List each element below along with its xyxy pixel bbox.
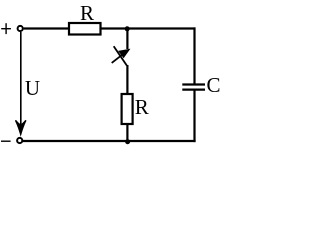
voltage arrow U (shaft) bbox=[20, 32, 22, 127]
resistor R2 (middle, vertical) bbox=[122, 94, 133, 124]
wire from junction down to switch bbox=[126, 29, 128, 50]
wire from resistor R2 down to bottom rail bbox=[126, 124, 128, 142]
capacitor C1 plates bbox=[182, 85, 205, 90]
svg-text:R: R bbox=[135, 95, 149, 119]
wire bottom horizontal bbox=[23, 140, 196, 142]
switch S1 (closing key with arrow) bbox=[112, 46, 130, 65]
plus terminal sign bbox=[1, 23, 11, 34]
svg-text:R: R bbox=[80, 1, 94, 25]
wire right vertical upper (to capacitor) bbox=[193, 27, 195, 84]
svg-text:C: C bbox=[207, 73, 221, 97]
voltage arrow U (arrowhead) bbox=[16, 120, 26, 134]
terminal node - (circle) bbox=[17, 138, 22, 143]
wire right vertical lower (capacitor to bottom rail) bbox=[193, 90, 195, 142]
terminal node + (circle) bbox=[18, 26, 23, 31]
svg-text:U: U bbox=[25, 76, 40, 100]
wire from switch down to resistor R2 bbox=[126, 65, 128, 95]
node junction bottom (dot) bbox=[125, 139, 130, 144]
resistor R1 (top, horizontal) bbox=[69, 23, 101, 35]
wire top horizontal bbox=[24, 27, 196, 29]
node junction top (dot) bbox=[125, 26, 130, 31]
minus terminal sign bbox=[1, 140, 11, 142]
